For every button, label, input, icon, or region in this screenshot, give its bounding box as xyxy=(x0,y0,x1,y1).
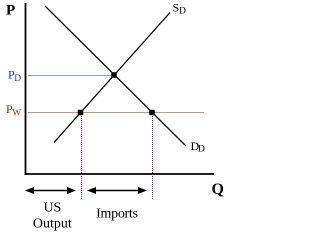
svg-text:Imports: Imports xyxy=(96,207,137,222)
svg-text:Output: Output xyxy=(33,217,72,232)
svg-text:P: P xyxy=(6,3,15,19)
svg-text:D: D xyxy=(14,74,21,84)
svg-text:Q: Q xyxy=(212,181,224,198)
svg-text:D: D xyxy=(198,145,205,155)
svg-text:D: D xyxy=(179,7,186,17)
svg-text:W: W xyxy=(12,109,21,119)
svg-text:US: US xyxy=(43,201,61,216)
